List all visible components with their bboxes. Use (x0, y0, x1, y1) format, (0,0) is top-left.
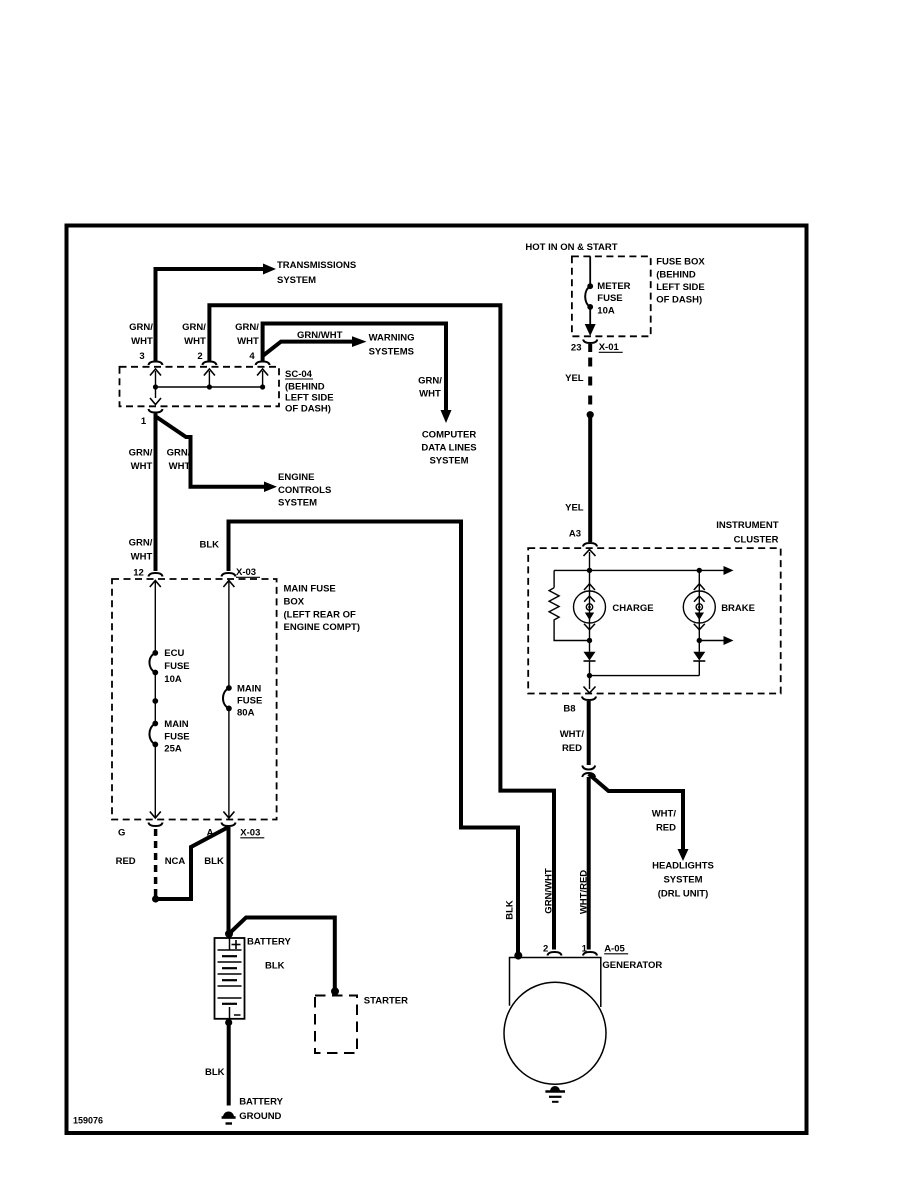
svg-text:(DRL UNIT): (DRL UNIT) (658, 889, 708, 900)
svg-text:2: 2 (197, 351, 202, 362)
svg-text:MAIN: MAIN (237, 684, 261, 695)
svg-text:ENGINE: ENGINE (278, 472, 314, 483)
svg-text:(BEHIND: (BEHIND (656, 270, 696, 281)
svg-text:FUSE: FUSE (237, 696, 262, 707)
svg-text:DATA LINES: DATA LINES (421, 443, 476, 454)
svg-text:X-03: X-03 (240, 828, 260, 839)
svg-text:WHT/: WHT/ (560, 729, 585, 740)
svg-text:LEFT SIDE: LEFT SIDE (285, 393, 334, 404)
svg-text:SYSTEM: SYSTEM (663, 875, 702, 886)
svg-text:SYSTEM: SYSTEM (278, 498, 317, 509)
svg-text:METER: METER (597, 281, 630, 292)
svg-text:INSTRUMENT: INSTRUMENT (716, 520, 778, 531)
svg-text:GRN/: GRN/ (418, 376, 442, 387)
svg-text:WHT: WHT (131, 461, 153, 472)
svg-text:WHT: WHT (131, 336, 153, 347)
svg-text:WARNING: WARNING (369, 333, 415, 344)
svg-text:MAIN: MAIN (164, 719, 188, 730)
svg-text:(LEFT REAR OF: (LEFT REAR OF (284, 610, 356, 621)
svg-text:WHT: WHT (184, 336, 206, 347)
svg-text:BLK: BLK (204, 856, 224, 867)
svg-text:SYSTEM: SYSTEM (429, 456, 468, 467)
svg-text:WHT/: WHT/ (652, 809, 677, 820)
svg-text:CLUSTER: CLUSTER (734, 535, 779, 546)
svg-text:RED: RED (656, 823, 676, 834)
svg-text:25A: 25A (164, 744, 182, 755)
svg-text:OF DASH): OF DASH) (285, 404, 331, 415)
svg-text:WHT: WHT (237, 336, 259, 347)
svg-text:TRANSMISSIONS: TRANSMISSIONS (277, 260, 356, 271)
svg-text:GRN/: GRN/ (129, 322, 153, 333)
svg-text:FUSE: FUSE (164, 732, 189, 743)
svg-text:CHARGE: CHARGE (612, 603, 653, 614)
svg-text:WHT/RED: WHT/RED (579, 870, 590, 914)
svg-text:NCA: NCA (165, 856, 186, 867)
svg-text:BATTERY: BATTERY (239, 1097, 283, 1108)
svg-text:RED: RED (562, 743, 582, 754)
svg-text:MAIN FUSE: MAIN FUSE (284, 584, 336, 595)
svg-text:23: 23 (571, 343, 582, 354)
svg-text:STARTER: STARTER (364, 996, 408, 1007)
svg-text:GRN/: GRN/ (182, 322, 206, 333)
svg-text:(BEHIND: (BEHIND (285, 382, 325, 393)
svg-text:YEL: YEL (565, 503, 584, 514)
svg-text:CONTROLS: CONTROLS (278, 485, 331, 496)
svg-text:HEADLIGHTS: HEADLIGHTS (652, 861, 714, 872)
svg-text:BLK: BLK (205, 1067, 225, 1078)
svg-text:GRN/: GRN/ (129, 538, 153, 549)
svg-text:A-05: A-05 (604, 944, 625, 955)
svg-text:2: 2 (543, 944, 548, 955)
svg-text:BLK: BLK (200, 540, 220, 551)
svg-text:OF DASH): OF DASH) (656, 295, 702, 306)
svg-text:YEL: YEL (565, 373, 584, 384)
svg-text:WHT: WHT (169, 461, 191, 472)
svg-text:GRN/WHT: GRN/WHT (297, 330, 343, 341)
svg-text:BATTERY: BATTERY (247, 937, 291, 948)
svg-text:BOX: BOX (284, 597, 305, 608)
svg-text:COMPUTER: COMPUTER (422, 430, 477, 441)
svg-text:ENGINE COMPT): ENGINE COMPT) (284, 622, 361, 633)
svg-text:X-01: X-01 (599, 342, 620, 353)
svg-text:FUSE: FUSE (164, 661, 189, 672)
svg-text:GRN/: GRN/ (167, 448, 191, 459)
svg-text:FUSE BOX: FUSE BOX (656, 257, 705, 268)
svg-text:1: 1 (582, 944, 588, 955)
svg-text:BLK: BLK (265, 961, 285, 972)
svg-text:80A: 80A (237, 708, 255, 719)
svg-text:RED: RED (116, 856, 136, 867)
svg-text:SYSTEMS: SYSTEMS (369, 347, 414, 358)
svg-text:ECU: ECU (164, 648, 184, 659)
svg-text:1: 1 (141, 416, 147, 427)
svg-text:BRAKE: BRAKE (721, 603, 755, 614)
svg-text:G: G (118, 828, 125, 839)
svg-text:BLK: BLK (505, 900, 516, 920)
svg-text:A: A (207, 828, 214, 839)
svg-text:SC-04: SC-04 (285, 369, 313, 380)
svg-text:12: 12 (133, 568, 144, 579)
svg-text:GRN/: GRN/ (235, 322, 259, 333)
svg-text:X-03: X-03 (236, 567, 256, 578)
svg-text:10A: 10A (597, 306, 615, 317)
svg-text:LEFT SIDE: LEFT SIDE (656, 282, 705, 293)
svg-text:WHT: WHT (419, 389, 441, 400)
svg-text:GROUND: GROUND (239, 1111, 281, 1122)
svg-text:159076: 159076 (73, 1116, 103, 1126)
svg-text:10A: 10A (164, 674, 182, 685)
svg-text:A3: A3 (569, 529, 581, 540)
svg-text:FUSE: FUSE (597, 293, 622, 304)
svg-text:GRN/WHT: GRN/WHT (544, 868, 555, 914)
svg-text:B8: B8 (563, 704, 575, 715)
svg-text:GRN/: GRN/ (129, 448, 153, 459)
svg-text:WHT: WHT (131, 552, 153, 563)
svg-text:SYSTEM: SYSTEM (277, 275, 316, 286)
svg-text:HOT IN ON & START: HOT IN ON & START (525, 242, 617, 253)
svg-text:4: 4 (249, 351, 255, 362)
svg-text:GENERATOR: GENERATOR (602, 960, 662, 971)
svg-text:3: 3 (139, 351, 144, 362)
